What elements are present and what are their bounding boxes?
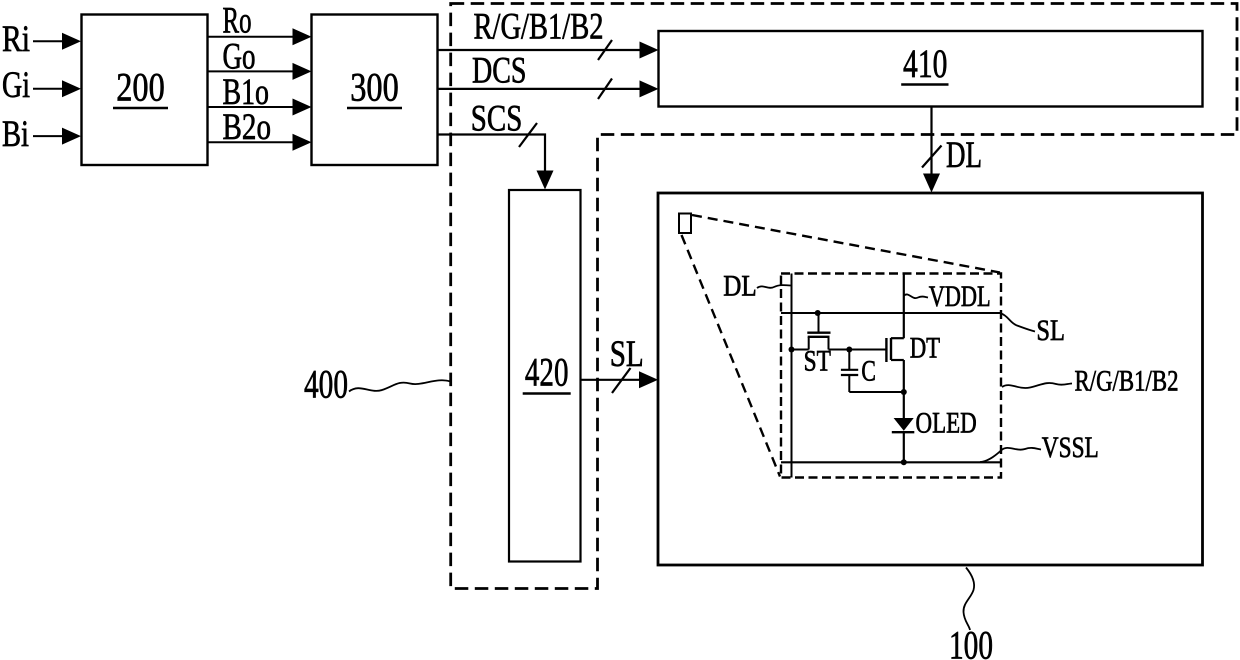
svg-text:100: 100 — [949, 623, 993, 660]
block 200 — [82, 15, 208, 166]
svg-text:ST: ST — [804, 345, 831, 378]
svg-text:400: 400 — [304, 362, 348, 407]
svg-text:SCS: SCS — [471, 99, 523, 140]
svg-text:DT: DT — [910, 332, 940, 365]
svg-text:VDDL: VDDL — [929, 280, 991, 313]
svg-text:Gi: Gi — [2, 65, 30, 106]
svg-text:OLED: OLED — [916, 406, 977, 439]
block 300 — [312, 15, 438, 166]
junction dot DL/source — [789, 347, 795, 353]
svg-text:Ro: Ro — [223, 1, 252, 42]
leader squiggle 100 — [963, 568, 974, 631]
leader squiggle VSSL — [980, 448, 1041, 462]
svg-text:DL: DL — [723, 270, 756, 303]
svg-text:B2o: B2o — [223, 107, 272, 148]
wire Ri input — [33, 40, 63, 42]
diode OLED — [894, 418, 914, 431]
wire SCS to 420 — [438, 135, 546, 172]
wire SL horizontal in pixel — [781, 312, 1001, 314]
svg-text:C: C — [861, 355, 876, 388]
transistor ST — [807, 313, 830, 350]
svg-text:DL: DL — [946, 135, 982, 176]
wire ST drain to node — [829, 349, 887, 351]
wire Ro — [208, 36, 294, 38]
svg-text:Ri: Ri — [2, 19, 30, 60]
junction dot SL/gate — [815, 310, 821, 316]
wire Go — [208, 70, 294, 72]
dashed callout line upper — [692, 215, 1000, 273]
svg-text:R/G/B1/B2: R/G/B1/B2 — [1075, 365, 1179, 398]
leader squiggle R/G/B1/B2 — [1002, 383, 1072, 388]
wire DT source down — [903, 360, 905, 418]
pixel inset dashed box R/G/B1/B2 — [781, 274, 1001, 478]
block 410 data driver — [659, 31, 1203, 107]
wire DL vertical in pixel — [791, 274, 793, 478]
wire Bi input — [33, 135, 63, 137]
block 420 scan driver — [509, 190, 581, 562]
svg-text:300: 300 — [350, 65, 399, 110]
magnifier square on panel — [679, 214, 691, 234]
wire DCS bus to 410 — [438, 88, 641, 90]
svg-text:SL: SL — [1036, 314, 1065, 347]
capacitor C — [841, 350, 904, 393]
wire R/G/B1/B2 bus to 410 — [438, 49, 641, 51]
transistor DT — [886, 338, 903, 362]
wire ST source to DL — [792, 349, 809, 351]
svg-text:DCS: DCS — [472, 50, 527, 91]
leader squiggle VDDL — [904, 294, 928, 298]
wire VSSL horizontal in pixel — [781, 461, 1001, 463]
junction dot cap/DT source — [901, 389, 907, 395]
svg-text:Bi: Bi — [2, 114, 29, 155]
block 100 display panel — [658, 193, 1203, 565]
wire VDDL vertical — [903, 274, 905, 339]
svg-text:VSSL: VSSL — [1042, 431, 1099, 464]
wire B2o — [208, 141, 294, 143]
svg-text:SL: SL — [610, 334, 644, 375]
wire Gi input — [33, 88, 63, 90]
junction dot OLED/VSSL — [901, 459, 907, 465]
svg-text:410: 410 — [903, 41, 947, 86]
wire DL from 410 to panel — [930, 107, 932, 175]
leader squiggle SL — [1001, 314, 1035, 332]
svg-text:R/G/B1/B2: R/G/B1/B2 — [474, 7, 604, 48]
wire SL from 420 to panel — [581, 379, 641, 381]
leader squiggle DL — [757, 285, 791, 288]
dashed callout line lower — [682, 235, 781, 477]
svg-text:200: 200 — [116, 65, 165, 110]
wire B1o — [208, 106, 294, 108]
junction dot storage node — [846, 347, 852, 353]
dashed boundary 400 — [451, 4, 1237, 589]
leader squiggle 400 — [349, 380, 451, 391]
svg-text:420: 420 — [525, 350, 569, 395]
